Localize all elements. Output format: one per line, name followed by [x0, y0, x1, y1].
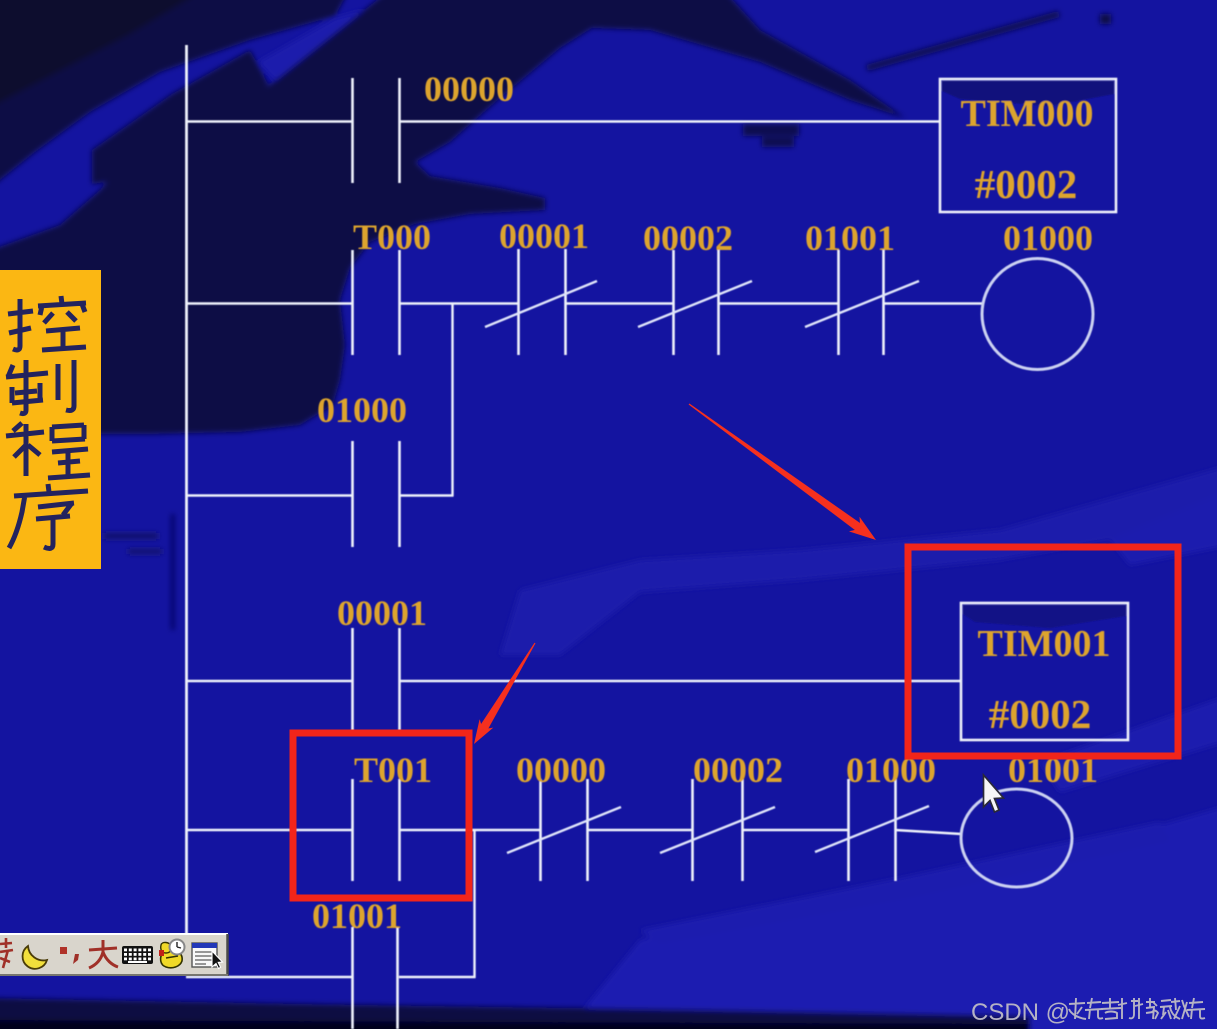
wire	[883, 302, 982, 304]
svg-text:CSDN @: CSDN @	[971, 999, 1070, 1026]
contact T000 (NO, rung 2)	[353, 250, 400, 355]
contact 01000 (NO, parallel branch 1)	[353, 441, 400, 547]
wire	[895, 830, 962, 834]
wire	[718, 302, 838, 304]
wire	[742, 829, 848, 831]
svg-text:00001: 00001	[337, 593, 427, 633]
svg-text:01001: 01001	[805, 218, 895, 258]
IME language toolbar	[0, 933, 228, 976]
left power rail	[185, 45, 188, 934]
CSDN watermark text	[971, 998, 1205, 1026]
wire	[399, 829, 540, 831]
red character da (toolbar)	[89, 940, 118, 968]
wire	[186, 302, 352, 304]
svg-text:00000: 00000	[424, 69, 514, 109]
svg-text:00002: 00002	[643, 218, 733, 258]
timer box TIM000	[940, 79, 1116, 212]
wire	[186, 120, 352, 122]
comma (toolbar)	[73, 954, 79, 964]
svg-text:01000: 01000	[1003, 218, 1093, 258]
duck icon (toolbar)	[159, 940, 185, 968]
contact 01000 (NC, rung 4)	[815, 779, 929, 881]
contact 01001 (NO, parallel branch 2)	[353, 927, 398, 1029]
wire	[186, 829, 352, 831]
wire	[399, 302, 518, 304]
branch junction wire (rung 4 to parallel 01001)	[473, 830, 475, 978]
wire	[399, 120, 940, 122]
svg-text:TIM000: TIM000	[961, 93, 1094, 135]
svg-text:00000: 00000	[516, 750, 606, 790]
contact 00002 (NC, rung 4)	[660, 779, 775, 881]
output coil 01000	[982, 259, 1093, 370]
svg-text:#0002: #0002	[975, 161, 1078, 207]
svg-text:00001: 00001	[499, 216, 589, 256]
red annotation arrow to T001	[474, 643, 536, 744]
wire	[186, 976, 352, 978]
red annotation arrow to TIM001	[689, 404, 876, 541]
contact 00001 (NC, rung 2)	[485, 249, 597, 355]
wire	[186, 494, 352, 496]
partial red character ying (toolbar, clipped)	[0, 938, 13, 968]
wire	[186, 680, 352, 682]
character zhi	[6, 360, 74, 414]
wire	[399, 680, 961, 682]
svg-text:#0002: #0002	[989, 691, 1092, 737]
contact 00002 (NC, rung 2)	[638, 250, 752, 355]
contact 00001 (NO, rung 3)	[353, 628, 400, 733]
wire	[399, 976, 476, 978]
timer box TIM001	[961, 603, 1128, 740]
red dot (toolbar)	[60, 947, 67, 954]
yellow title banner (kong-zhi-cheng-xu "control program")	[0, 270, 101, 569]
mouse cursor	[984, 775, 1004, 812]
branch junction wire (rung 2 to parallel 01000)	[451, 303, 453, 496]
svg-text:T001: T001	[354, 750, 432, 790]
red highlight box around T001	[293, 733, 469, 898]
svg-text:01000: 01000	[317, 390, 407, 430]
contact 00000 (NC, rung 4)	[507, 779, 621, 881]
moon icon (toolbar)	[23, 946, 47, 969]
wire	[587, 829, 692, 831]
wire	[565, 302, 673, 304]
svg-text:01001: 01001	[312, 896, 402, 936]
character cheng	[6, 423, 90, 478]
character xu	[9, 484, 88, 548]
contact 01001 (NC, rung 2)	[805, 250, 919, 355]
output coil 01001	[961, 789, 1072, 887]
contact T001 (NO, rung 4)	[353, 779, 400, 881]
svg-text:00002: 00002	[693, 750, 783, 790]
wire	[399, 494, 454, 496]
keyboard icon (toolbar)	[122, 946, 153, 964]
notepad icon (toolbar)	[192, 943, 223, 969]
red highlight box around TIM001	[908, 547, 1178, 756]
contact 00000 (NO, rung 1)	[353, 78, 400, 183]
svg-text:TIM001: TIM001	[978, 623, 1111, 665]
svg-text:T000: T000	[353, 217, 431, 257]
character kong	[8, 296, 86, 350]
